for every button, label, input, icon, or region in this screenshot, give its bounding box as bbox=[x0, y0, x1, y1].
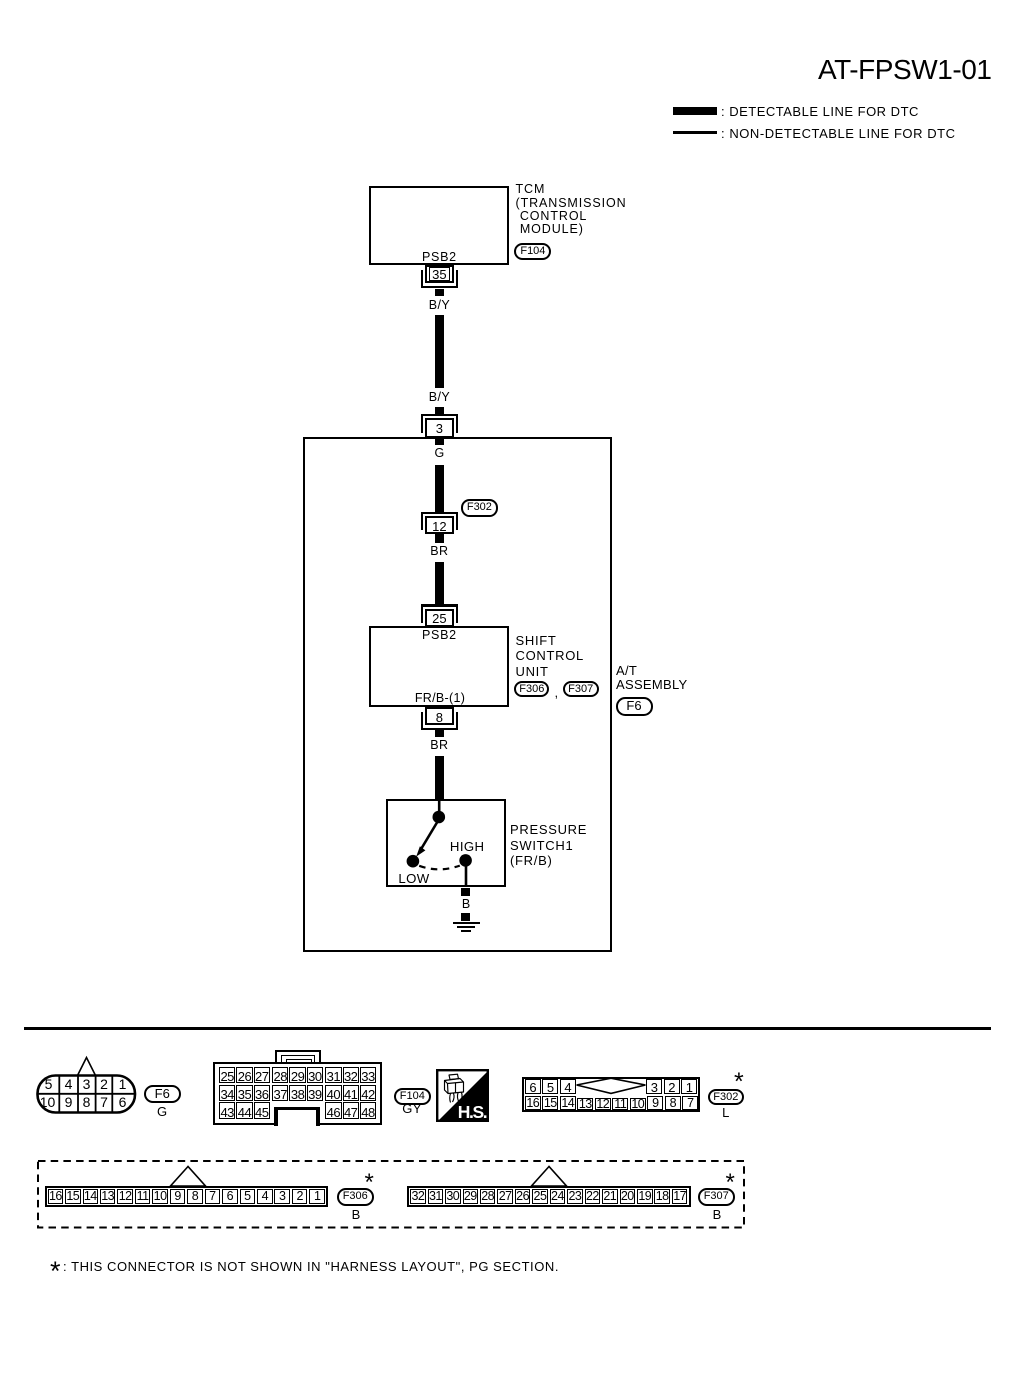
connector label F307 bbox=[563, 681, 599, 698]
connector color GY bbox=[312, 1102, 512, 1115]
connector label F6 bbox=[616, 697, 653, 716]
SHIFT CONTROL UNIT label text bbox=[516, 633, 584, 678]
wire stub below pin 8 bbox=[435, 729, 443, 737]
title AT-FPSW1-01 bbox=[818, 56, 991, 84]
wire stub above pin 3 bbox=[435, 407, 443, 414]
connector color B (F307) bbox=[617, 1208, 817, 1221]
F302 pin cells bottom row bbox=[525, 1096, 541, 1110]
legend thin line (non-detectable) bbox=[673, 131, 717, 135]
horizontal separator line bbox=[24, 1027, 991, 1030]
wire B/Y vertical segment bbox=[435, 315, 443, 389]
connector label F307 (pinout) bbox=[698, 1188, 735, 1206]
connector F6 pinout (oval 2x5 grid) bbox=[30, 1050, 145, 1120]
pin 12 (connector F302) bbox=[421, 512, 458, 514]
wire stub below pin 35 (B/Y) bbox=[435, 289, 443, 296]
pin 3 (A/T assembly boundary) bbox=[421, 414, 458, 416]
F302 diamond keyway bbox=[570, 1074, 652, 1099]
label HIGH bbox=[450, 840, 485, 853]
connector label F6 (pinout) bbox=[144, 1085, 181, 1103]
pin name FR/B-(1) bbox=[340, 692, 540, 705]
connector label F306 bbox=[514, 681, 549, 698]
footnote text bbox=[63, 1260, 559, 1273]
pin name PSB2 (TCM) bbox=[339, 251, 539, 264]
connector label F302 (pinout) bbox=[708, 1089, 744, 1106]
footnote star bbox=[50, 1258, 61, 1285]
wire stub below switch (B) bbox=[461, 888, 470, 897]
wire G vertical segment bbox=[435, 465, 443, 512]
F302 pin cells top row bbox=[525, 1079, 541, 1094]
wire BR to pressure switch bbox=[435, 756, 443, 800]
pressure switch contacts: feed line, common dot, switch arm with arrow, LOW dot, HIGH dot, dashed arc bbox=[380, 800, 520, 945]
star marker (F302) bbox=[734, 1070, 744, 1095]
wire stub below pin 12 bbox=[435, 534, 443, 543]
ground symbol bbox=[453, 922, 480, 925]
wire color label B/Y (lower) bbox=[339, 391, 539, 404]
wire stub above ground bbox=[461, 913, 470, 921]
PRESSURE SWITCH1 label text bbox=[510, 822, 587, 869]
F104 top tab outer bbox=[275, 1050, 321, 1065]
F104 bottom notch bbox=[274, 1107, 320, 1126]
pin 25 (shift control unit) bbox=[421, 604, 458, 606]
F104 body bbox=[213, 1062, 383, 1125]
F104 top tab inner bbox=[281, 1055, 315, 1067]
pin 8 (shift control unit) bbox=[421, 712, 423, 730]
pin 35 (TCM connector) bbox=[421, 270, 423, 288]
legend text non-detectable bbox=[721, 127, 956, 140]
connector F307 pinout (16-pin row) bbox=[527, 1164, 571, 1188]
wire color label B bbox=[366, 898, 566, 911]
F302 body bbox=[522, 1077, 700, 1113]
F104 pin cells bbox=[219, 1067, 235, 1083]
wire color label G bbox=[339, 447, 539, 460]
A/T ASSEMBLY label text bbox=[616, 664, 688, 692]
pin name PSB2 (shift control unit) bbox=[339, 629, 539, 642]
svg-text:H.S.: H.S. bbox=[458, 1101, 487, 1121]
connector color L bbox=[626, 1106, 826, 1119]
wire color label BR (lower) bbox=[339, 739, 539, 752]
F6 pin numbers row 2 bbox=[33, 1095, 63, 1109]
connector label F302 (inline) bbox=[461, 499, 498, 516]
TCM box bbox=[369, 186, 509, 266]
connector label F104 (TCM) bbox=[514, 243, 551, 260]
connector label F306 (pinout) bbox=[337, 1188, 374, 1206]
F6 pin numbers row 1 bbox=[34, 1077, 64, 1091]
connector F306 pinout (16-pin row) bbox=[166, 1164, 210, 1188]
PRESSURE SWITCH1 box bbox=[386, 799, 506, 888]
legend text detectable bbox=[721, 105, 919, 118]
label LOW bbox=[398, 872, 429, 885]
legend thick line (detectable) bbox=[673, 107, 717, 115]
star marker (F306) bbox=[365, 1171, 374, 1195]
connector color G bbox=[62, 1105, 262, 1118]
SHIFT CONTROL UNIT box bbox=[369, 626, 509, 707]
connector color B (F306) bbox=[256, 1208, 456, 1221]
TCM label text bbox=[516, 183, 627, 236]
H.S. (harness side) icon bbox=[436, 1069, 489, 1122]
wire BR vertical segment bbox=[435, 562, 443, 605]
F104 top tab slot bbox=[286, 1059, 312, 1064]
wire stub below pin 3 bbox=[435, 439, 443, 446]
comma between F306 and F307 bbox=[555, 686, 559, 699]
star marker (F307) bbox=[726, 1171, 735, 1195]
wire color label B/Y (upper) bbox=[339, 299, 539, 312]
connector label F104 (pinout) bbox=[394, 1088, 431, 1106]
wire color label BR (upper) bbox=[339, 545, 539, 558]
dashed box around F306/F307 connectors bbox=[35, 1158, 749, 1231]
A/T ASSEMBLY box bbox=[303, 437, 613, 953]
